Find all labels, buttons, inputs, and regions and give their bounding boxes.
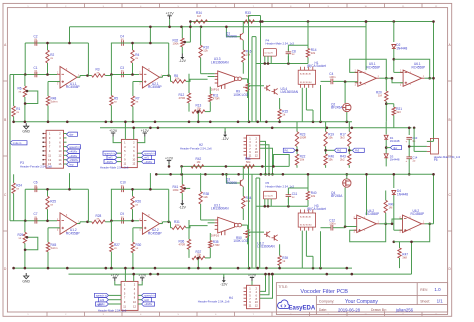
svg-text:djw: djw	[393, 146, 397, 150]
resistor R2	[46, 43, 55, 75]
svg-text:10k: 10k	[175, 77, 180, 81]
svg-text:+40/0v: +40/0v	[97, 302, 106, 306]
svg-text:470R: 470R	[179, 96, 186, 100]
net flag ref2 P2R	[138, 298, 152, 302]
wire bus verticals ch1	[252, 37, 256, 122]
resistor R21 3k3	[386, 104, 402, 128]
wire P1 to rails	[124, 121, 135, 140]
svg-text:ref1: ref1	[144, 156, 149, 160]
svg-text:3k3: 3k3	[340, 136, 345, 140]
svg-text:TITLE:: TITLE:	[278, 285, 288, 289]
wire cell2 left vertical	[110, 189, 113, 222]
connector H4 Header-Female 2x6	[198, 285, 260, 308]
net flag ref2 P2L	[99, 298, 122, 302]
svg-text:-12V: -12V	[222, 137, 230, 141]
svg-text:speech in: speech in	[96, 294, 108, 298]
svg-text:H4: H4	[229, 296, 233, 300]
wire feedback box U6.2	[393, 223, 432, 244]
transistor Q5 buffer	[264, 85, 299, 95]
resistor R29	[18, 221, 27, 268]
transistor Q6 buffer	[257, 231, 278, 248]
wire right column	[365, 20, 435, 141]
connector P2 Header-Male 2x6	[0, 0, 1, 1]
wire H4 stubs	[244, 288, 247, 305]
title block logo cell divider	[315, 296, 317, 315]
svg-text:DIP16: DIP16	[211, 234, 220, 238]
wire H2 stubs	[244, 138, 247, 155]
svg-text:3k3: 3k3	[396, 110, 401, 114]
wire right column	[367, 174, 434, 274]
resistor R34 1M	[194, 11, 208, 23]
svg-text:Header-Male 2.54_2x6: Header-Male 2.54_2x6	[98, 308, 127, 312]
power +12V ch2	[165, 156, 174, 167]
resistor R40 22k	[306, 191, 316, 200]
potentiometer R50 100K LOG	[233, 229, 249, 244]
net flag speech in P2R	[138, 293, 156, 297]
wire cell2 top net	[111, 42, 169, 44]
svg-text:470R: 470R	[213, 243, 220, 247]
svg-text:Date:: Date:	[319, 308, 327, 312]
svg-text:Header-Female 2.54_2x6: Header-Female 2.54_2x6	[180, 147, 212, 151]
svg-text:+12V: +12V	[141, 129, 150, 133]
capacitor C7 (input cap)	[34, 212, 38, 223]
power -12V ch2	[179, 200, 187, 210]
wire noninv input	[48, 228, 60, 243]
resistor R51 50k	[243, 157, 254, 168]
svg-text:1M: 1M	[378, 94, 383, 98]
svg-text:1M: 1M	[197, 14, 202, 18]
sheet value 1/1	[437, 299, 444, 304]
op-amp U1.2	[57, 213, 80, 236]
power +12V H4	[248, 273, 257, 285]
svg-text:B: B	[449, 118, 451, 122]
net flag lmp	[67, 162, 78, 166]
svg-text:speech in: speech in	[144, 294, 156, 298]
resistor R6	[18, 75, 27, 122]
svg-text:+40/0v: +40/0v	[69, 149, 78, 153]
resistor R4	[131, 43, 140, 75]
net flag ref1 P1R	[137, 155, 151, 159]
wire cell2 feedback vertical	[168, 43, 170, 76]
wire cap column	[408, 127, 416, 136]
net flag speech in P2L	[95, 293, 122, 297]
svg-text:djw: djw	[69, 132, 73, 136]
svg-text:+: +	[406, 140, 408, 144]
svg-text:Drawn By:: Drawn By:	[371, 308, 387, 312]
svg-text:DIP16: DIP16	[211, 87, 220, 91]
wire feedback box U4.2	[350, 223, 387, 242]
wire to series resistor	[169, 76, 172, 82]
svg-text:1M: 1M	[389, 206, 394, 210]
wire left vertical	[24, 43, 26, 75]
net flag -230/0v	[67, 158, 80, 162]
svg-text:2N3906: 2N3906	[226, 181, 237, 185]
net flag Rt2	[324, 148, 346, 152]
wire cell2 feedback vertical	[168, 189, 170, 222]
svg-text:100K LOG: 100K LOG	[233, 93, 248, 97]
op-amp U2.1	[139, 67, 162, 90]
net flag djw	[67, 132, 78, 136]
resistor R20 1M	[376, 78, 388, 122]
net flag djw mid	[385, 145, 401, 152]
capacitor C2	[34, 34, 38, 45]
transistor Q2 BF245A	[331, 82, 351, 122]
wire cell2 output	[160, 221, 171, 224]
connector P5 Header-Male 1x3	[427, 138, 461, 162]
svg-text:15k: 15k	[328, 158, 333, 162]
wire to series resistor	[169, 222, 172, 228]
svg-text:speech in: speech in	[144, 151, 156, 155]
wire P3 right stubs	[64, 134, 67, 165]
resistor R8	[172, 74, 186, 83]
title label TITLE:	[278, 285, 288, 289]
net flag +40/0v P1L	[104, 160, 121, 164]
resistor R44 10k	[242, 196, 252, 220]
svg-text:2N3906: 2N3906	[226, 35, 237, 39]
svg-text:wrd lvg IN: wrd lvg IN	[264, 52, 273, 55]
svg-text:Rt3: Rt3	[355, 149, 360, 153]
svg-text:1N4448: 1N4448	[397, 192, 408, 196]
wire OTA input pins	[201, 74, 215, 77]
wire cell2 noninv	[133, 82, 143, 97]
junction dots cell	[24, 188, 49, 222]
ground ch2	[22, 273, 30, 283]
wire R8 to OTA	[186, 226, 208, 228]
wire C8-R14 junction	[257, 174, 309, 207]
connector P4 Header-Male 1x3	[263, 38, 294, 56]
resistor R10 12k	[199, 27, 209, 74]
wire OTA mid verticals	[197, 110, 200, 122]
svg-text:Header-Female 2.54_2x6: Header-Female 2.54_2x6	[198, 300, 230, 304]
svg-text:100R: 100R	[300, 136, 307, 140]
title text Vocoder Filter PCB	[300, 289, 348, 295]
op-amp U6.1	[400, 62, 425, 87]
svg-text:-12V: -12V	[179, 206, 187, 210]
wire ch1 input node	[10, 74, 57, 76]
svg-text:mute in: mute in	[13, 141, 22, 145]
wire ch2 railB	[156, 173, 433, 175]
wire P5 pin wires	[408, 128, 434, 152]
svg-text:ref2: ref2	[144, 298, 149, 302]
power +12V P1 right	[137, 129, 149, 143]
resistor R16 10k	[242, 50, 252, 74]
net flag +40/0v b	[67, 154, 80, 158]
svg-text:1N4448: 1N4448	[390, 139, 400, 143]
svg-text:5ohm: 5ohm	[51, 246, 59, 250]
wire R8 to OTA	[186, 79, 208, 81]
connector H2 Header-Female 2x6	[180, 135, 260, 158]
wire feedback box U6.1	[393, 58, 432, 80]
svg-text:RC4558P: RC4558P	[366, 212, 380, 216]
junctions lower rail ch2	[149, 273, 353, 276]
wire feedback to rail	[68, 27, 71, 45]
title block row line 1	[276, 295, 447, 297]
svg-text:B1 B2 B3 B4: B1 B2 B3 B4	[300, 225, 312, 227]
company value Your Company	[345, 299, 378, 305]
svg-text:BF245A: BF245A	[331, 106, 343, 110]
junctions ground rail ch2	[12, 267, 348, 270]
wire ch2 railA	[182, 165, 290, 167]
wire socket pins to rails	[302, 228, 322, 268]
resistor R24	[12, 174, 22, 221]
rev label	[420, 288, 428, 292]
title block row line 2	[316, 304, 447, 306]
resistor R33 50k	[243, 11, 254, 23]
junction dots cell2	[131, 42, 134, 76]
resistor R36 470R	[179, 220, 191, 249]
resistor R42 1M	[191, 157, 204, 168]
wire R32 tap	[183, 187, 190, 190]
wire feedback box U5.1	[350, 59, 388, 79]
wire cell2 rail tap	[149, 173, 152, 191]
svg-text:Your Company: Your Company	[345, 299, 378, 305]
transistor Q1 2N3906	[225, 22, 243, 50]
svg-text:Header-Male 2.54_2x6: Header-Male 2.54_2x6	[100, 166, 129, 170]
resistor R39 1k	[278, 244, 288, 268]
wire lower rail ch2	[69, 273, 412, 275]
svg-text:RC4558P: RC4558P	[148, 231, 162, 235]
wire railA-railB tie	[189, 20, 192, 42]
svg-text:RC4558P: RC4558P	[411, 212, 425, 216]
wire OTA input pins	[201, 220, 215, 223]
wire feedback to rail	[68, 173, 71, 191]
wire C8-R14 junction	[257, 22, 309, 65]
resistor R30	[131, 242, 141, 268]
svg-text:Sheet:: Sheet:	[420, 299, 430, 303]
capacitor C6	[34, 181, 38, 192]
svg-text:+12V: +12V	[248, 273, 257, 277]
rev value 1.0	[434, 287, 441, 292]
resistor R48	[46, 96, 58, 122]
svg-text:(B)CA Socket: (B)CA Socket	[307, 64, 326, 68]
svg-text:100k: 100k	[173, 188, 180, 192]
svg-text:+40/0v: +40/0v	[144, 160, 153, 164]
resistor R46 15k	[324, 150, 334, 168]
wire input to noninv	[344, 80, 358, 83]
company label	[319, 299, 335, 303]
wire ground rail ch1	[14, 121, 352, 123]
op-amp U6.2	[399, 209, 424, 234]
wire ground rail ch2	[14, 267, 352, 269]
junction dots cell	[24, 42, 49, 76]
net flag +40/0v a	[67, 149, 80, 153]
frame column ticks	[47, 3, 422, 316]
wire socket pins to rails	[302, 81, 322, 121]
svg-text:-12V: -12V	[220, 283, 228, 287]
transistor Q4 BF245A	[331, 173, 351, 227]
wire top cap net	[25, 188, 88, 190]
resistor R23 100R	[295, 122, 306, 151]
svg-text:Rt2: Rt2	[337, 149, 342, 153]
svg-text:12k: 12k	[203, 195, 208, 199]
svg-text:100k: 100k	[173, 42, 180, 46]
svg-text:1/1: 1/1	[437, 299, 444, 304]
IC U3.3 LM13600AN (OTA)	[211, 57, 245, 91]
connector P1 Header-Male 2x6	[100, 139, 137, 169]
wire ch2 railA-B tie	[181, 166, 183, 174]
svg-text:-230/0v: -230/0v	[69, 158, 78, 162]
IC U3.1 LM13600AN (OTA)	[211, 203, 245, 237]
net flag +40/0v P1R	[137, 160, 154, 164]
capacitor C4 100n	[322, 72, 345, 84]
frame row ticks	[3, 81, 452, 231]
resistor R7	[131, 96, 140, 122]
resistor R13 15k	[189, 102, 210, 114]
power +12V ch1	[166, 12, 175, 29]
svg-text:100n: 100n	[329, 75, 336, 79]
net flag +40/0v P2L	[96, 302, 122, 306]
wire trimmer loop	[24, 90, 38, 105]
svg-text:RC4558P: RC4558P	[412, 65, 426, 69]
wire trimmer loop	[24, 236, 38, 251]
svg-text:+40/0v: +40/0v	[105, 160, 114, 164]
svg-text:470R: 470R	[213, 97, 220, 101]
svg-text:470R: 470R	[179, 242, 186, 246]
wire P4 pins	[265, 199, 271, 206]
wire bus bridge ch1	[249, 16, 262, 122]
svg-text:+12V: +12V	[109, 129, 118, 133]
resistor R45	[46, 242, 58, 268]
wire OTA out	[242, 79, 264, 86]
wire cell2 input net	[111, 220, 139, 222]
svg-text:wrd lvg IN: wrd lvg IN	[264, 194, 273, 197]
socket H1 (B)CA Socket	[298, 61, 326, 88]
wire H2 right wires	[260, 141, 274, 175]
resistor R28 (series)	[92, 214, 112, 224]
net flag speech in ch1	[67, 145, 81, 149]
wire P2 to rails	[124, 267, 135, 282]
svg-text:22k: 22k	[311, 194, 316, 198]
resistor R25	[46, 189, 56, 221]
svg-text:+40/0v: +40/0v	[144, 302, 153, 306]
svg-text:A4 A3 A2 A1: A4 A3 A2 A1	[300, 215, 312, 218]
svg-text:15k: 15k	[328, 136, 333, 140]
title block rev cell divider	[416, 283, 418, 305]
wire noninv input	[48, 82, 60, 97]
svg-text:RC4558P: RC4558P	[66, 85, 80, 89]
svg-text:B1 B2 B3 B4: B1 B2 B3 B4	[300, 82, 312, 84]
svg-text:5ohm: 5ohm	[51, 100, 59, 104]
diode D1 1N4448	[384, 122, 400, 145]
wire U6.2 noninv	[391, 219, 403, 225]
capacitor C4	[120, 34, 124, 45]
capacitor C3	[120, 66, 124, 77]
wire U6.1 noninv	[391, 77, 403, 83]
svg-text:ref2: ref2	[100, 298, 105, 302]
wire +12V rail ch1	[190, 21, 433, 23]
ground ch1	[22, 123, 30, 133]
svg-text:+: +	[406, 159, 408, 163]
svg-text:+12V: +12V	[166, 12, 175, 16]
wire cell2 input net	[111, 74, 139, 76]
svg-text:+12V: +12V	[165, 156, 174, 160]
junctions lower rail ch1	[149, 127, 353, 130]
wire P4 pins	[265, 56, 271, 63]
svg-text:EasyEDA: EasyEDA	[289, 305, 316, 311]
wire opamp output	[77, 221, 92, 224]
resistor R22 10k	[295, 150, 305, 168]
capacitor C13 1u	[406, 136, 418, 146]
resistor R38 12k	[199, 173, 209, 220]
title block outline	[276, 283, 447, 315]
op-amp U1.1	[57, 67, 80, 90]
junctions rails ch1	[149, 20, 395, 28]
svg-text:10k: 10k	[175, 223, 180, 227]
wire opamp output	[77, 74, 92, 77]
svg-text:A4 A3 A2 A1: A4 A3 A2 A1	[300, 73, 312, 76]
junction dots cell2	[131, 188, 134, 222]
capacitor C8	[286, 49, 296, 61]
junctions ground rail ch1	[12, 121, 348, 124]
resistor R37 15k	[189, 248, 210, 260]
wire U6.1 out	[425, 77, 434, 79]
wire feedback bus ch1	[70, 26, 367, 28]
sheet label	[420, 299, 430, 303]
svg-text:2k2: 2k2	[340, 158, 345, 162]
drawn by label	[371, 308, 387, 312]
resistor R26	[131, 189, 141, 221]
svg-text:RC4558P: RC4558P	[66, 231, 80, 235]
svg-text:1M: 1M	[197, 160, 202, 164]
svg-text:lmp: lmp	[69, 163, 74, 167]
svg-text:RC4558P: RC4558P	[367, 65, 381, 69]
power +12V P2 right	[138, 274, 147, 285]
potentiometer R9 100K LOG	[233, 83, 249, 98]
net flag speech in P1L	[103, 151, 121, 155]
svg-text:1u: 1u	[412, 158, 416, 162]
svg-text:1N4448: 1N4448	[390, 157, 400, 161]
svg-text:Vocoder Filter PCB: Vocoder Filter PCB	[300, 289, 348, 295]
svg-text:Company:: Company:	[319, 299, 335, 303]
svg-text:3k8: 3k8	[402, 256, 407, 260]
resistor R17 3k3	[340, 122, 351, 151]
op-amp U2.2	[139, 213, 162, 236]
resistor R1	[12, 75, 21, 122]
svg-text:P5: P5	[434, 158, 438, 162]
wire cell2 rail tap	[149, 27, 152, 45]
EasyEDA logo	[278, 300, 316, 311]
resistor R31	[172, 220, 186, 229]
resistor R32 100k	[173, 27, 185, 54]
power -12V ch1	[179, 54, 187, 64]
wire P3 left pin stubs	[42, 133, 46, 165]
svg-text:GND: GND	[22, 130, 30, 134]
drawn by value julian256	[395, 308, 414, 313]
svg-text:LM13600AN: LM13600AN	[281, 90, 299, 94]
svg-text:Rt1: Rt1	[285, 149, 290, 153]
net flag mute in	[10, 141, 27, 145]
svg-text:+40/0v: +40/0v	[69, 154, 78, 158]
resistor R27	[110, 221, 120, 268]
svg-text:15k: 15k	[197, 106, 202, 110]
svg-text:BF245A: BF245A	[331, 194, 343, 198]
svg-text:RC4558P: RC4558P	[148, 85, 162, 89]
svg-text:100K LOG: 100K LOG	[233, 239, 248, 243]
resistor R14 22k	[306, 48, 316, 57]
wire U5.1 out	[379, 77, 392, 79]
net flag speech in P1R	[137, 151, 156, 155]
svg-text:12k: 12k	[203, 49, 208, 53]
power +12V P2 left	[111, 274, 121, 285]
diode D3 1N4448	[384, 152, 400, 166]
resistor R12 470R	[179, 74, 191, 103]
svg-text:Header-Male 2.54_1x3: Header-Male 2.54_1x3	[434, 155, 461, 159]
net flag Rt1	[283, 148, 298, 152]
net flag +40/0v P2R	[138, 302, 155, 306]
net flag ref1 P1L	[107, 155, 121, 159]
wire U4.2 out	[379, 223, 392, 225]
wire H4 right wires	[260, 273, 274, 298]
